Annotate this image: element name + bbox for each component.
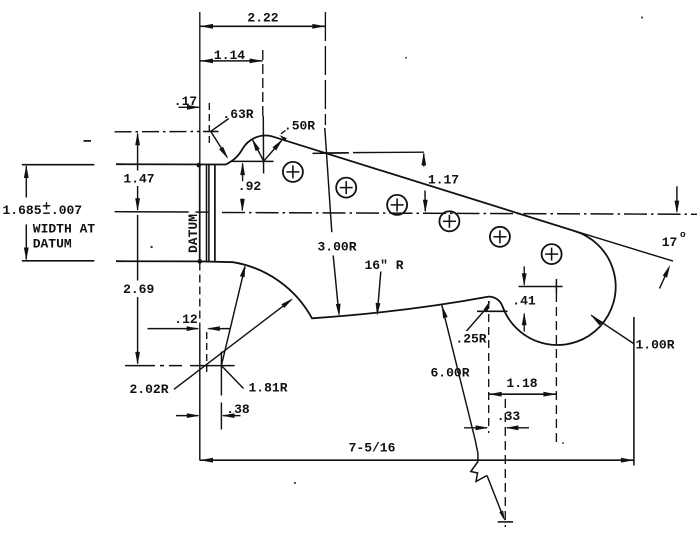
stray dot e [562, 442, 564, 444]
stray dot b [294, 482, 296, 484]
svg-text:1.00R: 1.00R [635, 338, 674, 353]
svg-text:1.81R: 1.81R [248, 381, 287, 396]
dim 1.47 line upper [137, 134, 139, 171]
2.02R leader and radius line [174, 300, 291, 390]
.50R radius arrow upright [273, 139, 283, 150]
svg-text:2.02R: 2.02R [129, 382, 168, 397]
.25R center tick [477, 310, 508, 312]
6.00R break zigzag [471, 462, 487, 482]
1.17 ref line b [353, 151, 424, 153]
7-5/16 arrow left [200, 458, 213, 463]
17deg angle arrow [663, 265, 671, 278]
.41 lower arrow line [523, 314, 525, 332]
1.14 extension solid through 50R center [262, 116, 264, 174]
datum line at nut [199, 165, 201, 261]
.50R radius arrow upleft [252, 138, 260, 151]
6.00R center tick [498, 521, 513, 523]
tuner hole 5 [490, 227, 510, 247]
tick through 2.02R/1.81R centers [190, 365, 235, 367]
stray dot c [641, 16, 643, 18]
1.81R center vertical lower [220, 403, 222, 430]
width ref line top [22, 164, 94, 166]
tuner hole 4 [439, 211, 459, 231]
.41 upper arrow line [523, 266, 525, 285]
svg-text:.25R: .25R [455, 332, 486, 347]
ball center vertical (dashed) [555, 293, 557, 447]
tuner hole 1 [283, 162, 303, 182]
dim 2.69 line upper [137, 215, 139, 281]
17deg centerline arrow [675, 201, 680, 214]
2.22 right extension (dashed) [324, 12, 326, 125]
stray dot d [405, 57, 407, 59]
minus of tolerance [43, 212, 50, 214]
node nut top corner [197, 163, 202, 168]
svg-text:17: 17 [662, 235, 678, 250]
tuner hole 3 [387, 195, 407, 215]
svg-text:.007: .007 [51, 203, 82, 218]
dim .17 arrow line [179, 106, 200, 108]
.25R center vertical (dashed) [488, 301, 490, 433]
.92 upper arrow [240, 162, 245, 175]
1.00R leader [591, 315, 634, 343]
16R leader [377, 272, 380, 313]
svg-text:2.69: 2.69 [123, 282, 154, 297]
.63R text leader [211, 119, 229, 132]
centerline tick at nut [196, 211, 210, 213]
svg-text:1.685: 1.685 [2, 203, 41, 218]
1.81R text leader [221, 366, 243, 389]
.38 left arrow line [176, 415, 198, 417]
centerline left segment [115, 211, 189, 213]
.50R mini leader [281, 131, 286, 134]
dim 1.47 line lower [137, 186, 139, 210]
svg-text:DATUM: DATUM [186, 214, 201, 253]
datum extension below (solid) [199, 330, 201, 461]
dim 1.685 line lower [25, 224, 27, 259]
7-5/16 arrow right [621, 458, 634, 463]
dim 1.14 arrow left [200, 59, 213, 64]
lower dash-dot line [125, 365, 182, 367]
1.17 top hook line [423, 154, 425, 167]
node nut bottom corner [198, 259, 203, 264]
svg-text:1.14: 1.14 [214, 48, 245, 63]
svg-text:.92: .92 [238, 179, 262, 194]
dim 1.47 arrow up [135, 132, 140, 145]
.33 left arrow [476, 425, 489, 430]
.63R radius arrow [219, 147, 228, 159]
headstock outline [116, 136, 616, 345]
dim 7-5/16 line [200, 459, 634, 461]
1.81R center vertical upper [220, 352, 222, 396]
width ref line bottom [22, 260, 94, 262]
svg-text:2.22: 2.22 [247, 11, 278, 26]
1.18 arrow right [543, 392, 556, 397]
dim 1.685 arrow up [24, 165, 29, 178]
ball center ref line [519, 286, 563, 288]
svg-text:.17: .17 [174, 94, 197, 109]
dim 2.22 line [200, 25, 325, 27]
svg-text:.50R: .50R [284, 119, 315, 134]
dim 2.22 arrow right [312, 24, 325, 29]
.12 left arrow [187, 326, 200, 331]
tuner hole 6 [542, 244, 562, 264]
.33 right arrow [505, 425, 518, 430]
6.00R center arrow [499, 511, 505, 521]
svg-text:3.00R: 3.00R [317, 240, 356, 255]
3.00R arrow [336, 304, 341, 317]
6.00R radius arrow [442, 305, 448, 318]
.63R radius line [211, 132, 227, 158]
1.17 ref line a [325, 152, 349, 154]
1.00R arrow [591, 315, 603, 325]
.38 right arrow [221, 413, 234, 418]
nut back line [208, 165, 210, 262]
svg-text:7-5/16: 7-5/16 [349, 441, 396, 456]
6.00R center vertical (dashed) [504, 399, 506, 527]
svg-text:1.17: 1.17 [428, 173, 459, 188]
nut end line [214, 164, 216, 261]
svg-text:DATUM: DATUM [33, 237, 72, 252]
.50R radius line upleft [253, 140, 264, 161]
17deg sloped reference line extension [573, 231, 673, 262]
nut front line [206, 165, 208, 262]
dim 1.685 line upper [25, 166, 27, 198]
dim 2.69 arrow down [135, 352, 140, 365]
ball center vertical tick [555, 279, 557, 293]
upper dash-dot line [115, 131, 200, 133]
tick at .63R center [203, 131, 219, 133]
stray dot a [150, 246, 152, 248]
svg-text:.41: .41 [512, 294, 536, 309]
right extension line [633, 317, 635, 466]
3.00R lower leader [333, 256, 339, 314]
dim 1.685 arrow down [24, 248, 29, 261]
.92 upper arrow line [242, 164, 244, 182]
.41 upper arrow [522, 273, 527, 286]
6.00R leader upper [442, 305, 478, 461]
17deg angle arrow line [660, 269, 669, 289]
tuner hole 2 [336, 178, 356, 198]
6.00R leader lower [487, 476, 504, 518]
.33 left arrow line [464, 427, 487, 429]
svg-text:.38: .38 [226, 402, 250, 417]
centerline dash-dot [222, 213, 697, 215]
3.00R radius line upper [325, 128, 332, 232]
dim 1.14 line [200, 60, 263, 62]
svg-text:1.47: 1.47 [123, 172, 154, 187]
svg-text:WIDTH AT: WIDTH AT [33, 221, 96, 236]
.33 right arrow line [507, 427, 529, 429]
datum extension above [199, 12, 201, 164]
16R arrow [376, 303, 381, 316]
dim 1.47 arrow down [135, 198, 140, 211]
.50R radius line upright [264, 141, 282, 162]
1.18 arrow left [489, 392, 502, 397]
svg-text:o: o [680, 229, 686, 240]
svg-text:16" R: 16" R [364, 258, 403, 273]
1.17 lower arrow [423, 200, 428, 213]
1.81R radius arrow [240, 264, 246, 277]
.41 lower arrow [522, 312, 527, 325]
.12 left arrow line [148, 328, 199, 330]
2.02R radius arrow [281, 298, 293, 308]
dim .17 arrow [187, 105, 200, 110]
.38 left arrow [187, 413, 200, 418]
.92 lower arrow [240, 199, 245, 212]
svg-text:6.00R: 6.00R [430, 366, 469, 381]
.12 right arrow [207, 326, 220, 331]
stray dash left [84, 140, 92, 142]
1.17 top arrow [421, 152, 426, 165]
tick at 3.00R tangency [313, 152, 349, 155]
dim 1.14 arrow right [250, 59, 263, 64]
svg-text:.33: .33 [497, 409, 521, 424]
.50R mini arrow [279, 135, 287, 141]
1.14 extension dashed [262, 50, 264, 118]
2.02R center vertical (dashed) [206, 332, 208, 376]
dim 2.69 line lower [137, 297, 139, 364]
dim 2.22 arrow left [200, 24, 213, 29]
.92 ref line [232, 160, 274, 162]
.38 right arrow line [223, 415, 241, 417]
.25R arrow [484, 300, 491, 311]
plus of tolerance [43, 205, 50, 207]
.25R leader [467, 308, 488, 332]
nut-back extension above (dashed) [208, 103, 210, 143]
1.81R radius line [221, 267, 245, 366]
dim 1.18 line [489, 393, 557, 395]
.12 right arrow line [209, 328, 231, 330]
svg-text:.12: .12 [174, 312, 198, 327]
17deg line arrow on centerline [676, 186, 678, 211]
svg-text:1.18: 1.18 [506, 376, 537, 391]
1.17 lower line [424, 191, 426, 212]
datum extension below (dashed) [199, 263, 201, 331]
.92 lower arrow line [241, 199, 243, 211]
